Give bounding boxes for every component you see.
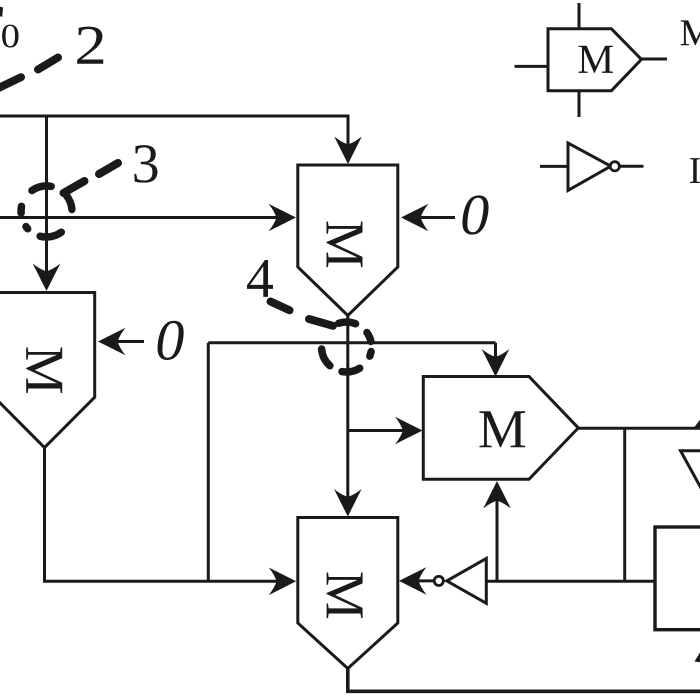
label 3 — [134, 145, 157, 183]
label fragment below register (cut) — [695, 653, 700, 663]
wire left branch down — [207, 343, 210, 582]
wire 0 to mux M2 — [407, 216, 455, 219]
legend text INV (cut) — [690, 158, 700, 183]
wire node-4 horizontal distribution — [208, 341, 495, 344]
cut mark 3 leader dashes — [64, 163, 119, 193]
wire vertical drop to mux M1 — [45, 116, 48, 284]
label M of mux M4 — [479, 411, 525, 447]
arrow into mux M4 top — [482, 349, 510, 377]
label M of mux M2 — [326, 221, 362, 267]
mux M2 top center — [298, 165, 398, 316]
arrow at right edge (cut) — [694, 420, 700, 429]
arrow into mux M3 top — [334, 489, 362, 517]
arrow into mux M1 top — [33, 264, 61, 292]
cut mark 4 leader dashes — [271, 302, 334, 326]
legend text MUX (cut) — [681, 20, 700, 45]
mux M4 right pointing — [423, 377, 578, 480]
wire feedback down from output — [623, 428, 626, 581]
legend mux symbol body — [548, 29, 641, 91]
cut mark 3 dashed circle — [21, 186, 72, 237]
inverter U2 pointing down (cut at right edge) — [681, 451, 700, 494]
label M of mux M3 — [327, 572, 363, 618]
wire bubble to arrow — [406, 579, 434, 582]
legend mux right stub — [641, 58, 667, 61]
wire up into mux M4 bottom — [496, 488, 499, 581]
legend mux top stub — [578, 3, 581, 29]
wire mux M3 output to bottom rail — [348, 669, 700, 692]
constant 0 value (left mux) — [158, 321, 184, 360]
arrow into mux M3 left — [269, 568, 297, 596]
legend mux left stub — [515, 65, 549, 68]
wire right branch down to mux M4 top — [494, 343, 497, 370]
legend inverter left stub — [540, 165, 568, 168]
constant 0 value (top mux) — [462, 195, 488, 234]
constant 0 arrow into mux M2 select — [401, 204, 429, 232]
mux M1 left (cut at edge) — [0, 293, 95, 448]
node p0 fragment (letter cut at canvas edge) — [0, 7, 3, 18]
wire feedback horizontal to register — [486, 580, 655, 583]
wire mux M2 output vertical — [346, 316, 349, 511]
inverter U1 pointing left — [447, 559, 487, 604]
legend inverter right stub — [620, 165, 644, 168]
label M of mux M1 — [26, 347, 62, 393]
wire W1 top horizontal — [0, 116, 348, 157]
cut mark 4 dashed circle — [322, 322, 372, 372]
node p0 subscript — [2, 25, 18, 48]
cut mark 2 dashes — [0, 58, 58, 89]
arrow into mux M4 left — [395, 417, 423, 445]
mux M3 bottom center — [298, 518, 398, 669]
wire branch to mux M4 left input — [348, 429, 416, 432]
wire 0 to mux M1 — [104, 340, 144, 343]
wire mux M1 output down and right — [45, 448, 291, 582]
wire W2 second horizontal input — [0, 216, 290, 219]
label 4 — [247, 260, 273, 297]
arrow into mux M2 top — [334, 137, 362, 165]
legend inverter symbol — [568, 143, 611, 190]
constant 0 arrow into mux M1 select — [98, 328, 126, 356]
arrow into mux M3 right — [399, 567, 427, 595]
legend inverter bubble — [610, 162, 619, 171]
arrow into mux M4 bottom — [483, 481, 511, 509]
arrow into mux M2 left — [269, 204, 297, 232]
legend mux label M — [578, 46, 613, 73]
register R1 (cut at right edge) — [655, 527, 700, 630]
legend mux bottom stub — [578, 91, 581, 117]
label 2 — [77, 27, 103, 64]
wire mux M4 output — [578, 427, 700, 430]
inverter U1 bubble — [434, 576, 443, 585]
